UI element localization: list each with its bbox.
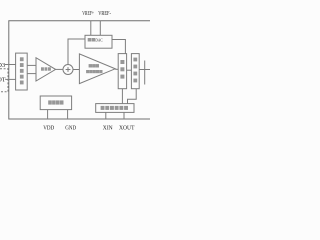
modulator box <box>118 54 126 89</box>
dashed ellipsis box on input pins <box>0 69 8 92</box>
wire filter to output <box>139 69 150 71</box>
plus sign in summer <box>66 67 71 72</box>
PGA triangle <box>79 54 115 84</box>
chip outline border <box>9 21 150 119</box>
wire filter to clock elbow <box>128 89 137 104</box>
wire mux out upper <box>27 64 36 66</box>
svg-text:OT: OT <box>0 77 6 84</box>
digital filter box <box>131 54 139 89</box>
wire mux out lower <box>27 73 36 75</box>
pin GND lead <box>67 110 69 119</box>
wire PGA to modulator <box>115 68 118 70</box>
output box left edge (cropped) <box>144 61 146 85</box>
wire modulator to clock <box>121 89 123 104</box>
svg-text:XOUT: XOUT <box>119 125 135 132</box>
PGA text: 可编程 / 增益放大器 <box>86 64 102 73</box>
wire modulator to filter <box>127 69 132 71</box>
bias supply box <box>40 96 71 110</box>
clock text: 时钟产生电路 <box>101 106 128 110</box>
wire DAC left to summer <box>68 39 85 65</box>
svg-text:VREF-: VREF- <box>98 11 111 17</box>
pin VREF+ lead <box>90 21 92 36</box>
offset DAC U1 box <box>85 35 112 48</box>
pin XOUT lead <box>123 112 125 119</box>
mux text: 多路选择器 (vertical) <box>20 57 24 84</box>
wire DAC right to modulator <box>112 40 125 55</box>
filter text: 数字滤波 (vertical) <box>133 58 137 83</box>
pin XIN lead <box>105 112 107 119</box>
wire summer to PGA <box>73 69 79 71</box>
wire D3 input <box>5 64 16 66</box>
svg-text:DAC: DAC <box>95 38 102 43</box>
buffer amp triangle <box>36 58 56 81</box>
svg-text:XIN: XIN <box>103 125 113 132</box>
svg-text:GND: GND <box>65 125 76 132</box>
svg-text:VDD: VDD <box>43 125 54 132</box>
wire OT input <box>5 78 15 80</box>
modulator text: 调制器 (vertical) <box>120 60 124 79</box>
svg-text:D3: D3 <box>0 62 5 69</box>
clock generator box <box>96 104 134 113</box>
summing node circle <box>63 65 73 75</box>
offset DAC text: 偏移DAC <box>88 38 95 42</box>
pin VREF- lead <box>99 21 101 36</box>
bias text: 偏置电源 <box>48 100 63 104</box>
wire buffer to summer <box>56 68 64 70</box>
multiplexer box <box>16 53 28 90</box>
pin VDD lead <box>47 110 49 119</box>
buffer text: 缓冲器 <box>41 67 51 70</box>
svg-text:VREF+: VREF+ <box>82 11 94 17</box>
